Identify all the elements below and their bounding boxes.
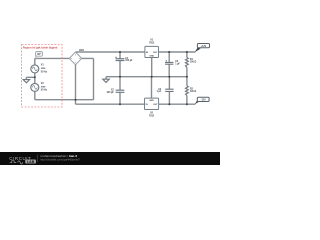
svg-text:7912: 7912 <box>149 115 155 117</box>
svg-text:1 µF: 1 µF <box>175 63 180 65</box>
svg-text:http://circuitlab.com/c/pzj4t4: http://circuitlab.com/c/pzj4t45dzmb7/ <box>40 157 80 161</box>
svg-text:1 µF: 1 µF <box>156 91 161 93</box>
svg-text:50 Hz: 50 Hz <box>41 90 48 92</box>
svg-text:50 Hz: 50 Hz <box>41 71 48 73</box>
svg-text:+12V: +12V <box>201 46 207 48</box>
svg-text:-12V: -12V <box>201 100 206 102</box>
svg-text:7812: 7812 <box>149 43 155 45</box>
svg-text:100 Ω: 100 Ω <box>190 62 197 64</box>
svg-text:OUT: OUT <box>153 52 158 54</box>
svg-text:100 µF: 100 µF <box>125 60 133 62</box>
svg-text:LAB: LAB <box>27 160 35 164</box>
svg-text:sine: sine <box>41 87 46 89</box>
svg-text:V1: V1 <box>41 65 45 67</box>
svg-text:U2: U2 <box>150 112 154 114</box>
svg-text:sine: sine <box>41 68 46 70</box>
svg-text:IN: IN <box>146 104 149 106</box>
svg-text:GND: GND <box>149 100 154 102</box>
svg-text:OUT: OUT <box>153 104 158 106</box>
svg-text:100 µF: 100 µF <box>107 92 115 94</box>
svg-text:BR1: BR1 <box>79 50 84 52</box>
svg-text:U1: U1 <box>150 40 154 42</box>
svg-text:Region ini gak boleh diganti: Region ini gak boleh diganti <box>23 46 58 50</box>
svg-text:GND: GND <box>149 56 154 58</box>
svg-text:100 Ω: 100 Ω <box>190 91 197 93</box>
svg-text:IN: IN <box>146 52 149 54</box>
svg-text:V2: V2 <box>41 83 45 85</box>
